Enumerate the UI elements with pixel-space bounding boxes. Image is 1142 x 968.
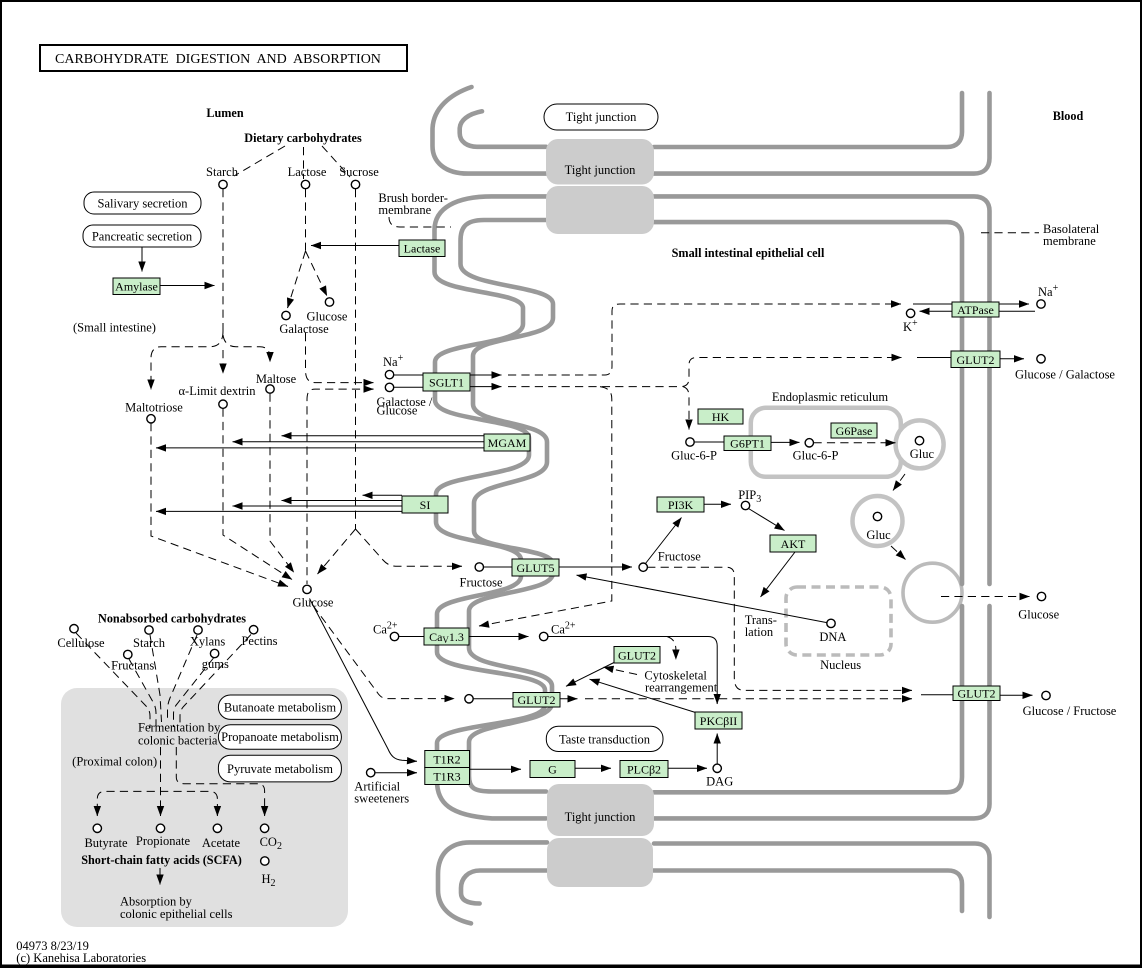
node Glucose blood — [1037, 592, 1045, 600]
node Fructans — [124, 650, 132, 658]
gene box Amylase — [113, 278, 160, 295]
AKT to translation arrow — [761, 552, 796, 597]
white box Pancreatic secretion — [83, 225, 201, 247]
node Lactose — [301, 180, 309, 188]
Na and galactose/glucose lines into SGLT1 — [394, 374, 424, 376]
basolateral membrane dashed leader — [981, 232, 1039, 234]
white box Tight junction top — [544, 104, 658, 130]
lactose fork to galactose — [288, 251, 306, 308]
svg-text:Lactose: Lactose — [288, 165, 327, 179]
svg-text:gums: gums — [202, 657, 229, 671]
svg-text:CARBOHYDRATE DIGESTION AND ABS: CARBOHYDRATE DIGESTION AND ABSORPTION — [55, 52, 381, 67]
membrane: adjacent-cell apical hook outer (top left) — [433, 87, 547, 174]
membrane: main-cell brush border outer wavy line — [435, 196, 547, 818]
white box Salivary secretion — [84, 192, 201, 214]
node Ca2+ extracellular — [390, 632, 398, 640]
endoplasmic reticulum outline — [751, 408, 901, 477]
sucrose fork right to fructose — [356, 529, 463, 566]
node CO2 — [260, 824, 268, 832]
node PIP3 — [741, 501, 749, 509]
node Propionate — [156, 824, 164, 832]
svg-text:rearrangement: rearrangement — [645, 681, 718, 695]
node a-limit dextrin — [219, 400, 227, 408]
dashed path cytosol fructose to GLUT2 bottom right — [647, 567, 912, 690]
node Ca2+ cytosol — [540, 632, 548, 640]
dashed arrow free vesicle to exocytosis — [891, 546, 906, 560]
glucose line into GLUT2 membrane — [473, 698, 513, 700]
gene box HK — [698, 409, 743, 424]
title box — [40, 45, 407, 71]
gene box GLUT2 membrane — [513, 693, 560, 708]
GLUT2 upper solid stubs — [917, 357, 951, 359]
gene box PKCbII — [695, 712, 742, 729]
svg-text:Amylase: Amylase — [115, 280, 158, 294]
node Glucose cytosol — [303, 585, 311, 593]
Gluc-6-P line into G6PT1 — [694, 441, 724, 443]
svg-text:Endoplasmic reticulum: Endoplasmic reticulum — [772, 390, 889, 404]
node Na+ blood — [1037, 300, 1045, 308]
gene box AKT — [770, 535, 816, 552]
ATPase lower line with arrow to K+ — [920, 310, 1036, 312]
nucleus dashed outline — [786, 587, 891, 655]
gene box ATPase — [952, 302, 999, 317]
svg-text:Starch: Starch — [133, 636, 166, 650]
node Glucose lumen — [325, 298, 333, 306]
node DAG — [713, 764, 721, 772]
bracket fork under starch — [151, 331, 223, 390]
node Starch — [219, 180, 227, 188]
gene box SGLT1 — [423, 373, 470, 391]
white box Pyruvate metabolism — [218, 755, 341, 782]
membrane: lower adjacent-cell hook outer (bottom left) — [438, 842, 547, 923]
fermentation funnel dashed curves — [76, 633, 150, 728]
galactose-glucose dashed line branch to SGLT1 lower and down to cytosol glucose — [307, 389, 374, 584]
node gums — [210, 649, 218, 657]
node H2 — [261, 857, 269, 865]
membrane: adjacent-cell apical hook inner (top left) — [460, 111, 546, 147]
tight junction gray box lower pair — [547, 784, 654, 836]
white box Butanoate metabolism — [218, 695, 341, 719]
exocytosis membrane bulge — [903, 563, 962, 622]
node Glucose/Galactose blood — [1037, 355, 1045, 363]
fermentation left dashed vertical — [160, 747, 162, 784]
svg-text:Maltotriose: Maltotriose — [125, 401, 183, 415]
svg-text:Tight junction: Tight junction — [566, 110, 637, 124]
svg-text:Propanoate metabolism: Propanoate metabolism — [221, 730, 339, 744]
svg-text:sweeteners: sweeteners — [354, 792, 409, 806]
membrane: main-cell basolateral outer vertical (with gap) — [654, 196, 990, 584]
svg-text:Lumen: Lumen — [206, 106, 243, 120]
svg-text:membrane: membrane — [378, 203, 431, 217]
Ca2+ path to PKCbII — [548, 637, 718, 705]
node K+ — [906, 309, 914, 317]
G to PLCb2 arrow — [575, 767, 611, 769]
svg-text:Fermentation by: Fermentation by — [138, 721, 221, 735]
svg-text:colonic bacteria: colonic bacteria — [138, 734, 218, 748]
svg-text:GLUT2: GLUT2 — [618, 649, 656, 663]
page frame border — [0, 0, 1142, 2]
svg-text:PLCβ2: PLCβ2 — [627, 763, 661, 777]
dashed arrow ER vesicle to free vesicle — [893, 474, 905, 491]
svg-text:Glucose / Galactose: Glucose / Galactose — [1015, 368, 1115, 382]
node Gluc-6-P ER — [805, 439, 813, 447]
dashed branch down to Cav1.3 — [479, 387, 612, 626]
svg-text:Propionate: Propionate — [136, 834, 191, 848]
svg-text:Lactase: Lactase — [404, 242, 441, 256]
svg-text:AKT: AKT — [781, 537, 806, 551]
SCFA absorption dashed arrow — [159, 868, 161, 876]
membrane: lower adjacent-cell horizontals to right verticals — [654, 844, 990, 918]
svg-text:Glucose: Glucose — [307, 310, 348, 324]
node Starch colon — [145, 626, 153, 634]
gene box SI — [402, 496, 448, 513]
node Glucose/Fructose blood — [1042, 691, 1050, 699]
svg-text:DNA: DNA — [819, 630, 846, 644]
svg-text:Nucleus: Nucleus — [820, 658, 861, 672]
node DNA — [827, 619, 835, 627]
gene box G6Pase — [831, 423, 877, 438]
gene box PI3K — [657, 497, 704, 512]
fermentation right dashed path to CO2 — [176, 747, 264, 808]
sucrose dashed vertical — [355, 189, 357, 529]
svg-text:MGAM: MGAM — [488, 436, 527, 450]
dashed path SGLT1 to GLUT2 upper — [508, 358, 902, 387]
dashed arrow cytoskeletal to GLUT2 small — [604, 667, 638, 674]
gene box Cav1.3 — [424, 628, 469, 645]
svg-text:(Small intestine): (Small intestine) — [73, 321, 156, 335]
artificial sweeteners line to T1R3 — [375, 772, 417, 774]
svg-text:Xylans: Xylans — [190, 635, 226, 649]
GLUT2 membrane output arrow — [560, 698, 578, 700]
dashed branch to cytoskeletal rearrangement — [667, 637, 676, 660]
svg-text:α-Limit dextrin: α-Limit dextrin — [178, 384, 256, 398]
DAG to PKCbII arrow — [716, 734, 718, 765]
white box Propanoate metabolism — [218, 725, 341, 750]
svg-text:SI: SI — [420, 498, 431, 512]
PI3K to PIP3 arrow — [704, 503, 731, 505]
glucose dashed path to GLUT2 membrane — [313, 606, 455, 699]
free Gluc vesicle circle — [853, 496, 903, 546]
node Maltose — [266, 385, 274, 393]
gene box MGAM — [484, 434, 530, 451]
fermentation gray panel — [61, 688, 348, 927]
svg-text:Pectins: Pectins — [241, 634, 277, 648]
sucrose fork left to glucose — [318, 529, 356, 574]
gene box G — [530, 761, 575, 778]
gene box GLUT2 small — [614, 647, 660, 664]
node Cellulose — [70, 625, 78, 633]
ER budding vesicle circle — [896, 420, 944, 468]
GLUT2 basolateral stubs — [921, 694, 953, 696]
node glucose near GLUT2 — [465, 695, 473, 703]
glucose to T1R2 solid path — [310, 599, 418, 762]
svg-text:Glucose: Glucose — [1018, 608, 1059, 622]
node Na+ lumen — [385, 370, 393, 378]
svg-text:(c) Kanehisa Laboratories: (c) Kanehisa Laboratories — [16, 951, 146, 965]
gene box GLUT2 upper right — [951, 351, 1000, 368]
SI product lines — [363, 494, 403, 496]
svg-text:Nonabsorbed carbohydrates: Nonabsorbed carbohydrates — [98, 612, 246, 626]
gene box PLCb2 — [620, 761, 668, 778]
svg-text:SGLT1: SGLT1 — [429, 376, 464, 390]
svg-text:Gluc: Gluc — [910, 447, 935, 461]
DNA to GLUT5 translation line — [577, 575, 828, 623]
amylase arrow to starch line — [160, 285, 215, 287]
starch dashed vertical — [222, 189, 224, 331]
svg-text:ATPase: ATPase — [957, 303, 994, 317]
node Pectins — [249, 626, 257, 634]
svg-text:Dietary carbohydrates: Dietary carbohydrates — [244, 131, 362, 145]
svg-text:Glucose / Fructose: Glucose / Fructose — [1023, 704, 1117, 718]
G6PT1 arrow to ER Gluc-6-P — [771, 441, 800, 443]
node Sucrose — [351, 180, 359, 188]
svg-text:G6PT1: G6PT1 — [730, 437, 765, 451]
galactose dashed line to SGLT1 upper — [306, 333, 374, 383]
svg-text:(Proximal colon): (Proximal colon) — [72, 755, 157, 769]
fructose line into GLUT5 — [483, 566, 512, 568]
svg-text:lation: lation — [745, 625, 774, 639]
node Galactose/Glucose lumen — [385, 383, 393, 391]
membrane: adjacent-cell top horizontals to right verticals — [654, 93, 962, 147]
membrane: main-cell brush border inner wavy line — [461, 220, 554, 792]
node Gluc ER vesicle — [915, 437, 923, 445]
node Galactose — [282, 311, 290, 319]
Cav1.3 output arrow to cytosol Ca2+ — [469, 636, 529, 638]
svg-text:Gluc: Gluc — [866, 528, 891, 542]
T1R to G arrow — [470, 768, 522, 770]
svg-text:GLUT2: GLUT2 — [957, 353, 995, 367]
node Gluc-6-P cytosol — [686, 438, 694, 446]
SCFA distribution dashed path — [97, 791, 217, 812]
PLCb2 to DAG arrow — [668, 767, 707, 769]
membrane: main-cell basolateral inner vertical (with exocytosis gap) — [654, 222, 962, 584]
svg-text:Fructose: Fructose — [460, 576, 504, 590]
dashed branch down to Gluc-6-P / HK — [683, 387, 689, 430]
svg-text:Pyruvate metabolism: Pyruvate metabolism — [227, 762, 333, 776]
svg-text:Acetate: Acetate — [202, 836, 241, 850]
svg-text:GLUT2: GLUT2 — [518, 693, 556, 707]
PIP3 to AKT arrow — [749, 509, 785, 531]
svg-text:Galactose: Galactose — [279, 322, 329, 336]
dashed G6Pase arrow to vesicle Gluc — [814, 442, 896, 444]
node artificial sweeteners — [367, 769, 375, 777]
gene box GLUT2 lower right — [953, 686, 1000, 701]
svg-text:Tight junction: Tight junction — [565, 163, 636, 177]
node Acetate — [213, 824, 221, 832]
MGAM product lines — [282, 435, 485, 437]
dashed line GLUT2 membrane to GLUT2 basolateral — [585, 698, 912, 700]
gene box T1R3 — [425, 768, 470, 785]
svg-text:PKCβII: PKCβII — [700, 714, 737, 728]
svg-text:GLUT5: GLUT5 — [517, 561, 555, 575]
gene box T1R2 — [425, 751, 470, 768]
GLUT2 small solid arrow to membrane GLUT2 — [566, 663, 614, 687]
dashed path SGLT1 to ATPase (K+) — [508, 304, 901, 375]
svg-text:Short-chain fatty acids (SCFA): Short-chain fatty acids (SCFA) — [81, 853, 242, 867]
svg-text:Gluc-6-P: Gluc-6-P — [671, 449, 717, 463]
svg-text:Small intestinal epithelial ce: Small intestinal epithelial cell — [672, 246, 825, 260]
svg-text:Blood: Blood — [1053, 109, 1084, 123]
svg-text:G6Pase: G6Pase — [836, 424, 873, 438]
a-limit dextrin dashed vertical and diagonal to glucose — [223, 409, 292, 580]
svg-text:Gluc-6-P: Gluc-6-P — [793, 449, 839, 463]
svg-text:DAG: DAG — [706, 775, 733, 789]
fructose to PI3K arrow — [646, 518, 682, 564]
node Butyrate — [93, 824, 101, 832]
svg-text:Glucose: Glucose — [293, 596, 334, 610]
ATPase dashed K+ input — [913, 303, 1029, 305]
svg-text:Tight junction: Tight junction — [565, 810, 636, 824]
node Fructose cytosol — [639, 563, 647, 571]
svg-text:Butyrate: Butyrate — [84, 836, 127, 850]
Ca2+ line into Cav1.3 — [399, 636, 425, 638]
svg-text:PI3K: PI3K — [668, 498, 694, 512]
svg-text:HK: HK — [712, 410, 730, 424]
gene box G6PT1 — [724, 436, 771, 451]
lactose fork to glucose — [306, 251, 328, 296]
svg-text:Fructans: Fructans — [111, 659, 154, 673]
svg-text:Sucrose: Sucrose — [339, 165, 379, 179]
lactose dashed vertical — [305, 189, 307, 251]
membrane: lower adjacent-cell hook inner (bottom left) — [461, 871, 547, 904]
node Gluc free vesicle — [873, 512, 881, 520]
dashed arrow exocytosis to blood glucose — [941, 596, 1030, 598]
node Fructose lumen — [475, 563, 483, 571]
svg-text:Cellulose: Cellulose — [57, 636, 105, 650]
svg-text:Maltose: Maltose — [256, 372, 297, 386]
svg-text:T1R3: T1R3 — [433, 770, 460, 784]
svg-text:membrane: membrane — [1043, 234, 1096, 248]
white box Taste transduction — [546, 726, 663, 751]
svg-text:Starch: Starch — [206, 165, 239, 179]
svg-text:Salivary secretion: Salivary secretion — [98, 197, 189, 211]
svg-text:colonic epithelial cells: colonic epithelial cells — [120, 907, 233, 921]
PKCbII line to GLUT2 translocation — [590, 679, 696, 712]
svg-text:Butanoate metabolism: Butanoate metabolism — [224, 701, 336, 715]
gene box Lactase — [399, 240, 445, 257]
GLUT5 output arrow to cytosol fructose — [559, 566, 632, 568]
node Xylans — [194, 626, 202, 634]
tight junction gray box upper pair — [546, 139, 654, 185]
brush border membrane dashed leader — [389, 217, 451, 227]
pancreatic secretion arrow to amylase — [141, 247, 143, 272]
svg-text:Galactose /: Galactose / — [377, 395, 433, 409]
svg-text:T1R2: T1R2 — [433, 753, 460, 767]
svg-text:Pancreatic secretion: Pancreatic secretion — [92, 230, 193, 244]
maltose dashed vertical and diagonal to glucose — [270, 394, 294, 573]
svg-text:GLUT2: GLUT2 — [958, 687, 996, 701]
dietary fork dashed lines — [234, 146, 285, 176]
node Maltotriose — [147, 415, 155, 423]
lactase arrow to lactose line — [311, 245, 399, 247]
SGLT1 output arrows — [470, 374, 502, 376]
svg-text:G: G — [548, 763, 557, 777]
svg-text:Fructose: Fructose — [658, 550, 702, 564]
svg-text:Taste transduction: Taste transduction — [559, 733, 651, 747]
maltotriose dashed vertical and diagonal to glucose — [151, 423, 288, 587]
gene box GLUT5 — [512, 559, 559, 576]
